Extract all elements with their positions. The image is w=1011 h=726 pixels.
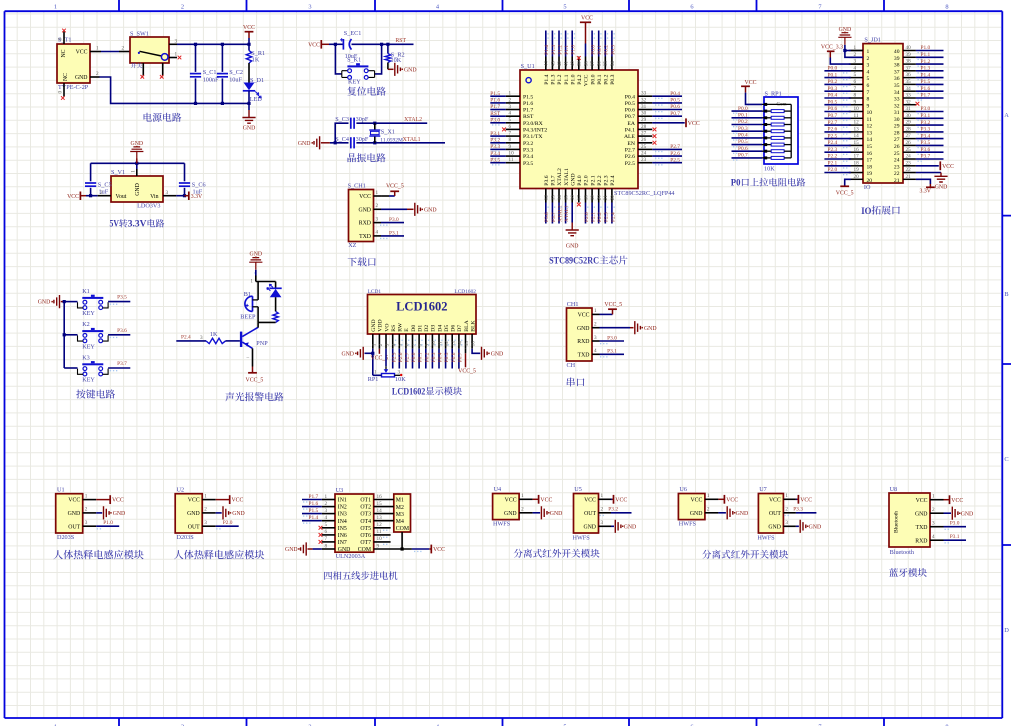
svg-text:P0.1: P0.1 [738,113,748,119]
svg-text:P1.3: P1.3 [921,66,931,72]
pin 0 top of S_T1 [63,32,65,45]
svg-text:24: 24 [906,154,912,160]
svg-text:KEY: KEY [82,343,95,350]
svg-text:2: 2 [100,190,103,196]
ground GND JD1 top-left [838,33,851,45]
svg-text:3: 3 [594,335,597,341]
svg-text:P3.7: P3.7 [551,212,557,222]
svg-text:U7: U7 [759,486,767,493]
svg-text:37: 37 [590,61,596,67]
svg-text:NC: NC [63,73,69,81]
svg-text:P3.2: P3.2 [490,137,500,143]
svg-text:P1.5: P1.5 [921,79,931,85]
svg-text:GND: GND [68,511,81,517]
svg-text:42: 42 [557,61,563,67]
svg-text:P0.2: P0.2 [738,119,748,125]
svg-text:S_EC1: S_EC1 [344,30,362,37]
svg-text:P0.1: P0.1 [828,72,838,78]
pin 0 bottom of S_T1 [63,83,65,97]
V1 pin3 wire [163,195,176,197]
svg-text:13: 13 [854,127,860,133]
svg-text:37: 37 [894,69,900,75]
svg-text:P0.0: P0.0 [591,45,597,55]
transistor Q1 PNP [240,332,242,347]
svg-text:22: 22 [610,195,616,201]
svg-text:9: 9 [509,144,512,150]
svg-text:HWFS: HWFS [573,534,591,541]
svg-text:P1.5: P1.5 [309,508,319,514]
svg-text:P2.6: P2.6 [625,154,635,160]
svg-text:VCC: VCC [726,497,738,503]
svg-text:VCC: VCC [942,164,954,170]
svg-text:P2.4: P2.4 [828,140,838,146]
svg-text:P2.6: P2.6 [670,151,680,157]
svg-text:D203S: D203S [177,534,195,541]
svg-text:25: 25 [894,151,900,157]
svg-text:LDO3V3: LDO3V3 [137,202,160,209]
svg-text:K2: K2 [82,321,90,328]
svg-text:GND: GND [736,511,749,517]
svg-text:3: 3 [785,520,788,526]
svg-text:P2.5: P2.5 [625,161,635,167]
svg-text:Bluetooth: Bluetooth [890,549,915,556]
svg-text:VCC: VCC [688,121,700,127]
svg-text:PNP: PNP [256,340,268,347]
svg-text:P0.7: P0.7 [458,352,464,362]
svg-text:P3.0: P3.0 [921,106,931,112]
svg-text:8: 8 [325,543,328,549]
svg-text:30: 30 [894,117,900,123]
svg-text:P0: P0 [731,179,741,189]
svg-text:37: 37 [906,65,912,71]
svg-text:11: 11 [867,117,873,123]
svg-text:1: 1 [204,493,207,499]
svg-text:30pF: 30pF [356,116,369,123]
svg-text:P2.7: P2.7 [405,352,411,362]
svg-text:P0.0: P0.0 [590,74,596,84]
svg-text:P0.2: P0.2 [424,352,430,362]
svg-text:P3.5: P3.5 [490,157,500,163]
svg-text:VCC_5: VCC_5 [836,190,854,196]
svg-text:GND: GND [358,207,371,213]
power port VCC U6 [718,498,724,500]
svg-text:VDD: VDD [378,319,384,331]
svg-text:CH1: CH1 [567,301,579,308]
svg-text:9: 9 [424,343,430,346]
svg-text:20: 20 [597,195,603,201]
svg-text:2: 2 [594,322,597,328]
svg-text:KEY: KEY [348,79,361,86]
svg-text:P0.5: P0.5 [444,352,450,362]
svg-text:P3.0: P3.0 [607,335,617,341]
power port VCC U8 [944,499,950,501]
svg-text:GND: GND [935,184,948,190]
svg-text:36: 36 [597,61,603,67]
wire K3 to P3.7 [64,367,77,369]
svg-text:P0.3: P0.3 [738,126,748,132]
wire OUT P1.0 [96,525,119,527]
power port VCC_5 JD1 pin20 [845,179,851,186]
svg-text:B: B [1004,291,1008,298]
svg-text:17: 17 [577,195,583,201]
svg-text:1: 1 [54,3,57,10]
svg-text:HWFS: HWFS [679,520,697,527]
svg-text:1: 1 [325,494,328,500]
svg-text:5: 5 [509,117,512,123]
svg-text:7: 7 [411,343,417,346]
motor connector M1-M4 [394,494,411,532]
svg-text:P3.0: P3.0 [490,118,500,124]
svg-text:VCC: VCC [188,498,200,504]
svg-text:26: 26 [894,144,900,150]
svg-text:IO: IO [861,206,872,217]
svg-text:3: 3 [601,520,604,526]
svg-text:S_RP1: S_RP1 [765,90,782,97]
svg-text:TXD: TXD [359,234,371,240]
svg-text:VCC: VCC [584,74,590,86]
svg-text:P1.0: P1.0 [570,74,576,84]
svg-text:15: 15 [867,144,873,150]
svg-text:K1: K1 [82,288,90,295]
svg-text:VO: VO [384,323,390,331]
svg-text:8: 8 [418,343,424,346]
svg-text:D0: D0 [411,325,417,332]
svg-text:U6: U6 [679,486,687,493]
svg-text:29: 29 [906,120,912,126]
svg-text:IN6: IN6 [338,533,347,539]
svg-text:0: 0 [58,91,64,94]
svg-text:P2.5: P2.5 [670,157,680,163]
power port VCC top of U1 [585,44,587,57]
wire RXD P3.0 [381,222,404,224]
svg-text:GND: GND [341,351,354,357]
svg-text:12: 12 [544,195,550,201]
svg-text:P1.0: P1.0 [921,45,931,51]
svg-text:M1: M1 [396,498,404,504]
svg-text:IN3: IN3 [338,512,347,518]
svg-text:P2.1: P2.1 [828,161,838,167]
svg-text:10K: 10K [764,166,775,173]
capacitor S_C2 [221,44,223,72]
svg-text:6: 6 [867,83,870,89]
RP1 common pin [762,103,791,105]
svg-text:BLA: BLA [464,319,470,331]
resistor S_R1 [247,43,250,46]
svg-text:16: 16 [471,341,477,347]
svg-text:OUT: OUT [188,524,200,530]
svg-text:P1.4: P1.4 [309,515,319,521]
svg-text:2: 2 [122,46,125,52]
svg-text:14: 14 [867,137,873,143]
svg-text:1: 1 [374,369,377,375]
capacitor S_C5 [90,163,92,181]
svg-text:–: – [246,355,250,361]
module U5 HWFS body [574,494,599,534]
svg-text:1: 1 [175,52,178,58]
svg-text:VCC: VCC [916,498,928,504]
svg-text:GND: GND [424,207,437,213]
svg-text:OT4: OT4 [360,519,371,525]
svg-text:OT5: OT5 [360,526,371,532]
svg-text:VCC: VCC [800,497,812,503]
svg-text:4: 4 [867,69,870,75]
svg-text:GND: GND [644,326,657,332]
svg-text:P2.0: P2.0 [584,175,590,185]
resistor S_R2 [387,44,389,53]
wire K2 to P3.6 [64,334,77,336]
svg-text:XTAL1: XTAL1 [564,168,570,186]
svg-text:31: 31 [894,110,900,116]
svg-text:VCC: VCC [578,313,590,319]
svg-text:RP1: RP1 [368,376,379,383]
svg-text:IO: IO [864,184,871,191]
svg-text:18: 18 [867,164,873,170]
ground GND buttons [54,295,60,308]
svg-text:U4: U4 [494,486,502,493]
module U4 HWFS body [493,494,519,520]
svg-text:RS: RS [391,325,397,332]
svg-text:2: 2 [378,343,384,346]
svg-text:31: 31 [906,106,912,112]
svg-text:D5: D5 [444,325,450,332]
svg-text:S_C1: S_C1 [203,69,217,76]
svg-text:30: 30 [641,111,647,117]
svg-text:16: 16 [867,151,873,157]
svg-text:OUT: OUT [68,524,80,530]
svg-text:P2.1: P2.1 [591,212,597,222]
svg-text:VCC: VCC [540,497,552,503]
svg-text:P1.0: P1.0 [571,45,577,55]
svg-text:P3.3: P3.3 [490,144,500,150]
svg-text:13: 13 [377,515,383,521]
svg-text:3.3V: 3.3V [191,194,203,200]
svg-text:P3.1: P3.1 [950,534,960,540]
svg-text:P2.4: P2.4 [610,212,616,222]
svg-text:9: 9 [854,99,857,105]
svg-text:D7: D7 [457,325,463,332]
svg-text:TXD: TXD [578,352,590,358]
svg-text:XTAL2: XTAL2 [557,205,563,222]
svg-text:3: 3 [200,335,203,341]
svg-text:GND: GND [624,524,637,530]
V1 pin2 wire [98,195,111,197]
svg-text:1: 1 [130,170,136,173]
svg-text:P1.6: P1.6 [921,86,931,92]
wire VCC to RP1 common [746,93,763,105]
svg-text:P0.1: P0.1 [597,74,603,84]
svg-text:1: 1 [707,493,710,499]
svg-text:M4: M4 [396,519,404,525]
V1 pin1 GND top [136,169,138,176]
svg-text:P3.7: P3.7 [551,175,557,185]
bottom rail wire [196,102,250,104]
svg-text:XTAL1: XTAL1 [403,137,421,143]
svg-text:VCC: VCC [690,497,702,503]
svg-text:GND: GND [491,351,504,357]
svg-text:E: E [404,328,410,332]
svg-text:2: 2 [707,507,710,513]
svg-text:RW: RW [398,322,404,331]
svg-text:VCC: VCC [615,497,627,503]
wire U8 P3.1 [944,539,967,541]
svg-text:P3.3: P3.3 [793,507,803,513]
svg-text:P3.1: P3.1 [490,131,500,137]
svg-text:P3.3: P3.3 [921,127,931,133]
svg-text:P2.7: P2.7 [670,144,680,150]
reset top wire [329,43,343,45]
svg-text:4: 4 [594,348,597,354]
svg-text:P4.3/INT2: P4.3/INT2 [523,128,547,134]
power port VCC_5 download [381,195,389,197]
RP1 resistor 6 P0.5 [732,144,763,146]
wire OUT P2.0 [216,525,239,527]
module U7 HWFS body [758,494,783,534]
power port VCC U5 [611,498,614,500]
svg-text:38: 38 [894,63,900,69]
resistor alarm [273,311,278,322]
svg-text:4: 4 [391,343,397,346]
svg-text:32: 32 [894,103,900,109]
capacitor S_C3 [350,118,352,129]
svg-text:15: 15 [854,140,860,146]
svg-text:Bluetooth: Bluetooth [894,511,900,533]
svg-text:6: 6 [405,343,411,346]
svg-text:2: 2 [785,507,788,513]
wire K1 to P3.5 [64,301,77,303]
svg-text:P0.7: P0.7 [738,153,748,159]
svg-text:1: 1 [601,493,604,499]
svg-text:P0.7: P0.7 [670,111,680,117]
svg-text:GND: GND [809,524,822,530]
svg-text:36: 36 [894,76,900,82]
svg-text:P0.6: P0.6 [625,108,635,114]
svg-text:10: 10 [431,341,437,347]
electrolytic capacitor S_EC1 [342,39,344,50]
module U1 D203S body [56,494,83,533]
svg-text:LCD1602: LCD1602 [392,387,426,397]
svg-text:IN5: IN5 [338,526,347,532]
svg-text:4: 4 [376,230,379,236]
driver U3 ULN2003A body [335,494,374,552]
SW1 pin 3 [169,43,177,45]
push button S_K1 [335,44,341,74]
svg-text:P2.0: P2.0 [223,520,233,526]
svg-text:P1.7: P1.7 [523,108,533,114]
power port VCC top [248,38,250,44]
svg-text:Vin: Vin [150,194,158,200]
alarm top rail [255,270,257,276]
svg-text:8: 8 [854,93,857,99]
svg-text:S_C5: S_C5 [98,181,112,188]
svg-text:P3.4: P3.4 [490,151,500,157]
svg-text:6: 6 [325,529,328,535]
svg-text:RST: RST [490,111,501,117]
svg-text:P0.3: P0.3 [610,45,616,55]
svg-text:S_X1: S_X1 [381,129,395,136]
svg-text:28: 28 [894,131,900,137]
svg-text:BEEP: BEEP [240,313,256,320]
svg-text:35: 35 [603,61,609,67]
svg-text:1: 1 [371,343,377,346]
svg-text:P2.0: P2.0 [828,167,838,173]
svg-text:17: 17 [867,158,873,164]
svg-text:VCC: VCC [232,498,244,504]
svg-text:12: 12 [867,124,873,130]
svg-text:15: 15 [377,501,383,507]
capacitor S_C1 [195,44,197,72]
crystal top wire XTAL2 [335,123,348,143]
svg-text:GND: GND [570,173,576,185]
svg-text:7: 7 [854,86,857,92]
ground GND JD1 pin22 [916,172,941,174]
svg-text:3: 3 [867,63,870,69]
svg-text:29: 29 [641,117,647,123]
svg-text:40: 40 [906,45,912,51]
svg-text:P2.4: P2.4 [181,334,191,340]
svg-text:35: 35 [894,83,900,89]
ground GND 3v3 [136,159,138,164]
top rail to GND [91,162,185,164]
svg-text:XTAL2: XTAL2 [404,117,422,123]
svg-text:GND: GND [38,300,51,306]
svg-text:34: 34 [894,90,900,96]
svg-text:P0.0: P0.0 [738,106,748,112]
svg-text:32: 32 [641,97,647,103]
svg-text:HWFS: HWFS [493,520,511,527]
wire serial RXD P3.0 [600,340,625,342]
svg-text:P1.3: P1.3 [551,74,557,84]
svg-text:VCC_5: VCC_5 [604,302,622,308]
svg-text:23: 23 [894,164,900,170]
svg-text:P0.3: P0.3 [828,86,838,92]
svg-text:VCC: VCC [584,497,596,503]
svg-text:P3.1: P3.1 [921,113,931,119]
svg-text:Vout: Vout [116,194,127,200]
svg-text:P1.5: P1.5 [523,94,533,100]
svg-text:LCD1602: LCD1602 [396,299,447,313]
svg-text:11: 11 [377,529,382,535]
svg-text:21: 21 [906,174,912,180]
svg-text:17: 17 [854,154,860,160]
svg-text:P1.6: P1.6 [523,101,533,107]
svg-text:6: 6 [509,124,512,130]
svg-text:P0.4: P0.4 [670,91,680,97]
svg-text:14: 14 [458,341,464,347]
ground GND U3 [301,542,307,555]
svg-text:VCC: VCC [359,194,371,200]
svg-text:P2.3: P2.3 [828,147,838,153]
svg-text:25: 25 [906,147,912,153]
svg-text:2: 2 [601,507,604,513]
svg-text:3: 3 [385,343,391,346]
svg-text:P3.4: P3.4 [921,133,931,139]
svg-text:VCC: VCC [581,16,593,22]
svg-text:IN7: IN7 [338,540,347,546]
svg-text:32: 32 [906,99,912,105]
svg-text:5V: 5V [110,219,120,229]
svg-text:23: 23 [641,157,647,163]
svg-text:12: 12 [444,341,450,347]
svg-text:2: 2 [85,507,88,513]
svg-text:26: 26 [641,137,647,143]
svg-text:XZ: XZ [348,242,356,249]
svg-text:16: 16 [377,494,383,500]
svg-text:P1.4: P1.4 [544,74,550,84]
svg-text:S_V1: S_V1 [111,169,125,176]
ground GND crystal [314,136,320,149]
svg-text:P1.5: P1.5 [490,91,500,97]
svg-text:16: 16 [570,195,576,201]
